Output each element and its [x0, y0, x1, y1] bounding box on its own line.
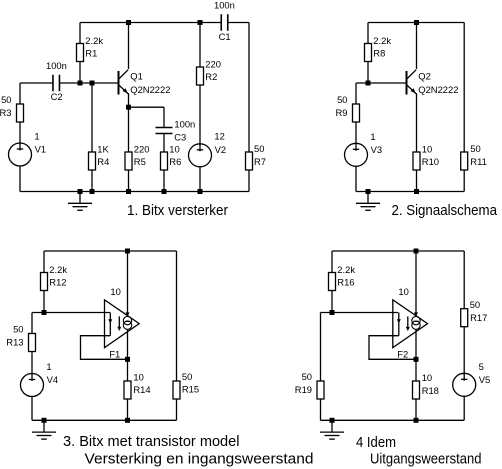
- svg-text:R19: R19: [295, 384, 312, 395]
- svg-text:C3: C3: [174, 131, 186, 142]
- svg-text:R18: R18: [422, 385, 439, 396]
- svg-text:Q2: Q2: [418, 71, 431, 82]
- svg-text:50: 50: [470, 299, 480, 310]
- svg-text:50: 50: [302, 371, 312, 382]
- svg-text:R6: R6: [169, 156, 181, 167]
- svg-text:V1: V1: [35, 144, 46, 155]
- svg-text:4 Idem: 4 Idem: [356, 435, 396, 451]
- svg-text:R10: R10: [422, 156, 439, 167]
- svg-text:R13: R13: [6, 336, 23, 347]
- svg-text:F1: F1: [109, 348, 120, 359]
- svg-text:5: 5: [479, 361, 484, 372]
- svg-text:100n: 100n: [46, 60, 67, 71]
- svg-text:50: 50: [254, 143, 264, 154]
- svg-text:220: 220: [134, 143, 150, 154]
- svg-text:2.2k: 2.2k: [337, 264, 355, 275]
- svg-text:220: 220: [205, 58, 221, 69]
- svg-text:R1: R1: [85, 47, 97, 58]
- svg-text:V2: V2: [215, 144, 226, 155]
- svg-text:Uitgangsweerstand: Uitgangsweerstand: [370, 452, 482, 468]
- svg-text:R5: R5: [134, 156, 146, 167]
- svg-text:100n: 100n: [174, 119, 195, 130]
- svg-text:R4: R4: [97, 156, 109, 167]
- svg-text:Q1: Q1: [130, 71, 143, 82]
- svg-text:R11: R11: [470, 156, 487, 167]
- svg-text:Q2N2222: Q2N2222: [418, 84, 458, 95]
- svg-text:3. Bitx met transistor model: 3. Bitx met transistor model: [63, 434, 240, 450]
- svg-text:R2: R2: [205, 71, 217, 82]
- svg-text:1K: 1K: [97, 143, 109, 154]
- svg-text:10: 10: [110, 286, 120, 297]
- svg-text:C2: C2: [51, 91, 63, 102]
- svg-text:50: 50: [470, 143, 480, 154]
- svg-text:R16: R16: [337, 276, 354, 287]
- svg-text:V3: V3: [371, 144, 382, 155]
- svg-text:2.2k: 2.2k: [373, 35, 391, 46]
- svg-text:1. Bitx versterker: 1. Bitx versterker: [127, 203, 228, 219]
- svg-text:Versterking en ingangsweerstan: Versterking en ingangsweerstand: [85, 452, 314, 468]
- svg-text:R9: R9: [336, 107, 348, 118]
- svg-text:10: 10: [169, 143, 179, 154]
- svg-text:2.2k: 2.2k: [85, 35, 103, 46]
- svg-text:R14: R14: [133, 384, 150, 395]
- svg-text:100n: 100n: [214, 0, 235, 10]
- svg-text:R15: R15: [182, 384, 199, 395]
- svg-text:V4: V4: [47, 374, 58, 385]
- svg-text:50: 50: [13, 323, 23, 334]
- svg-text:1: 1: [46, 361, 51, 372]
- svg-text:R3: R3: [0, 107, 12, 118]
- svg-text:12: 12: [214, 131, 224, 142]
- svg-text:V5: V5: [479, 374, 490, 385]
- svg-text:50: 50: [337, 94, 347, 105]
- svg-text:10: 10: [133, 371, 143, 382]
- svg-text:R7: R7: [254, 156, 266, 167]
- svg-text:R12: R12: [49, 276, 66, 287]
- svg-text:50: 50: [1, 94, 11, 105]
- svg-text:R17: R17: [470, 312, 487, 323]
- svg-text:50: 50: [182, 371, 192, 382]
- svg-text:1: 1: [34, 131, 39, 142]
- svg-text:Q2N2222: Q2N2222: [130, 84, 170, 95]
- svg-text:10: 10: [422, 372, 432, 383]
- svg-text:C1: C1: [219, 31, 231, 42]
- svg-text:F2: F2: [397, 348, 408, 359]
- svg-text:1: 1: [370, 131, 375, 142]
- svg-text:2. Signaalschema: 2. Signaalschema: [392, 203, 498, 219]
- svg-text:10: 10: [422, 143, 432, 154]
- svg-text:10: 10: [398, 286, 408, 297]
- svg-text:2.2k: 2.2k: [49, 264, 67, 275]
- svg-text:R8: R8: [373, 47, 385, 58]
